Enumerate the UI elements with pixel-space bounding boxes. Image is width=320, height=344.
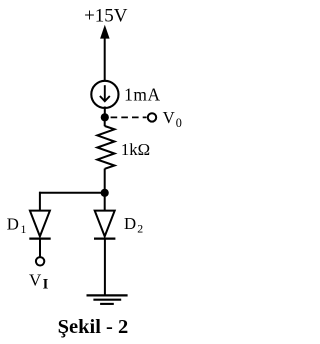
current source I1 circle	[91, 81, 118, 108]
svg-text:1: 1	[21, 222, 27, 236]
svg-text:1mA: 1mA	[124, 84, 161, 104]
svg-text:D: D	[7, 214, 19, 233]
svg-text:Şekil - 2: Şekil - 2	[58, 316, 129, 338]
svg-text:I: I	[43, 276, 49, 292]
current source I1 inner arrow	[100, 85, 110, 101]
wire supply arrow shaft	[104, 37, 106, 82]
resistor R 1k zigzag	[97, 126, 114, 169]
ground symbol	[87, 295, 128, 304]
svg-text:1kΩ: 1kΩ	[121, 140, 150, 159]
terminal V0 open circle	[148, 113, 156, 121]
dashed wire to V0 terminal	[111, 116, 147, 118]
terminal VI open circle	[36, 257, 44, 265]
wire horizontal to left branch	[39, 192, 105, 194]
svg-text:2: 2	[137, 221, 143, 235]
wire resistor to junction	[104, 169, 106, 193]
node junction dot below current source	[101, 113, 109, 121]
wire D1 to VI terminal	[39, 239, 41, 257]
node junction dot at resistor bottom	[101, 189, 109, 197]
wire D2 to ground	[104, 239, 106, 296]
diode D1 cathode bar	[29, 238, 50, 240]
svg-text:V: V	[29, 270, 42, 289]
svg-text:0: 0	[176, 116, 182, 130]
wire junction to D2	[104, 193, 106, 211]
wire current source to node	[104, 107, 106, 118]
diode D1 triangle	[30, 211, 50, 237]
diode D2 triangle	[95, 211, 115, 237]
svg-text:+15V: +15V	[84, 6, 128, 27]
wire left branch down to D1	[39, 192, 41, 211]
wire node to resistor	[104, 117, 106, 126]
svg-text:D: D	[124, 214, 136, 233]
diode D2 cathode bar	[94, 238, 115, 240]
supply arrowhead	[100, 25, 110, 39]
svg-text:V: V	[163, 108, 175, 127]
